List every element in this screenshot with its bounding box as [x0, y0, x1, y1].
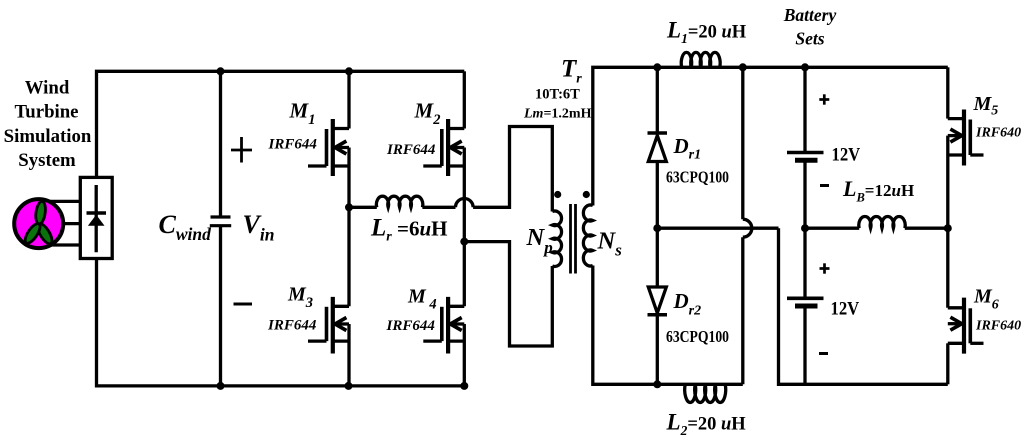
node top rail / L-vertical [739, 63, 747, 71]
transistor M6 [948, 228, 984, 384]
diode D-rect inside box [87, 185, 107, 252]
svg-text:Np: Np [526, 224, 553, 257]
minus sign B2 [819, 352, 828, 355]
wire bottom-left rail [97, 259, 465, 386]
node top rail / M1 [345, 67, 353, 75]
svg-text:System: System [18, 150, 76, 171]
capacitor Cwind [210, 217, 231, 226]
node bottom rail / M4 [460, 382, 468, 390]
svg-text:Vin: Vin [243, 210, 275, 245]
svg-text:Lr =6uH: Lr =6uH [370, 215, 447, 245]
svg-text:12V: 12V [831, 299, 860, 320]
node top rail / battery [801, 63, 809, 71]
svg-text:Ns: Ns [597, 228, 623, 260]
transistor M1 [308, 71, 349, 207]
svg-text:IRF640: IRF640 [975, 126, 1021, 141]
svg-text:Dr2: Dr2 [673, 289, 702, 319]
node middle wire / battery [801, 224, 809, 232]
svg-text:M6: M6 [973, 286, 999, 313]
svg-text:Battery: Battery [783, 5, 837, 25]
plus sign Vin [231, 137, 252, 163]
svg-text:M2: M2 [414, 99, 441, 128]
transistor M4 [423, 242, 464, 386]
wire Cwind branch bottom [219, 226, 222, 386]
transformer secondary winding Ns [583, 205, 592, 266]
wire middle output [657, 228, 948, 384]
svg-text:Wind: Wind [25, 78, 70, 99]
svg-text:L1=20 uH: L1=20 uH [666, 18, 747, 47]
svg-text:Tr: Tr [561, 55, 582, 86]
wire secondary top [593, 67, 948, 205]
wire primary bottom link [464, 242, 552, 346]
svg-text:Turbine: Turbine [14, 102, 78, 123]
svg-text:IRF644: IRF644 [386, 318, 436, 334]
node M2-M4 midpoint [460, 238, 468, 246]
plus sign B1 [819, 94, 829, 104]
wind turbine label [4, 78, 92, 172]
svg-text:L2=20 uH: L2=20 uH [666, 410, 747, 439]
node middle wire / M5M6 [944, 224, 952, 232]
wire Lr hop over M2M4 branch [456, 199, 474, 208]
svg-text:63CPQ100: 63CPQ100 [666, 327, 729, 346]
inductor L1 [681, 52, 720, 67]
inductor LB [805, 217, 948, 229]
node bottom rail / M3 [345, 382, 353, 390]
node M1-M3 midpoint [345, 203, 353, 211]
svg-text:M1: M1 [289, 99, 316, 128]
svg-text:Cwind: Cwind [159, 210, 212, 244]
wind turbine G1 [14, 199, 63, 248]
wire L-vertical with hop [743, 67, 752, 384]
svg-text:M5: M5 [973, 93, 999, 119]
transistor M3 [308, 207, 349, 386]
node bottom rail / Dr2 [653, 380, 661, 388]
svg-text:LB=12uH: LB=12uH [842, 176, 914, 205]
node top rail / Dr1 [653, 63, 661, 71]
svg-text:IRF644: IRF644 [267, 318, 317, 334]
svg-text:Sets: Sets [795, 29, 824, 49]
inductor Lr [349, 196, 456, 207]
wire top-left rail [97, 71, 465, 177]
svg-text:Dr1: Dr1 [673, 134, 702, 163]
minus sign B1 [820, 184, 829, 187]
wire turbine leads [50, 201, 80, 245]
polarity dot secondary [583, 191, 590, 198]
diode Dr1 [648, 67, 668, 228]
inductor L2 [685, 384, 726, 402]
transistor M2 [423, 71, 464, 241]
wire primary top link [473, 127, 552, 212]
svg-text:12V: 12V [832, 145, 861, 166]
node top rail / Cwind [217, 67, 225, 75]
battery B1 [787, 67, 824, 228]
wire secondary bottom [593, 266, 743, 385]
node middle wire / diodes [653, 224, 661, 232]
svg-text:Simulation: Simulation [4, 126, 92, 147]
polarity dot primary [554, 191, 561, 198]
transformer core [571, 204, 576, 274]
plus sign B2 [820, 263, 830, 273]
transformer primary winding Np [552, 211, 561, 266]
svg-text:IRF644: IRF644 [268, 136, 318, 152]
svg-text:Lm=1.2mH: Lm=1.2mH [523, 107, 592, 122]
svg-text:10T:6T: 10T:6T [535, 87, 580, 103]
svg-text:M3: M3 [287, 284, 313, 311]
rectifier box [80, 177, 112, 258]
svg-text:IRF640: IRF640 [975, 319, 1021, 334]
svg-text:63CPQ100: 63CPQ100 [666, 168, 729, 187]
svg-text:M 4: M 4 [407, 285, 437, 312]
label Battery Sets [783, 5, 837, 49]
wire Cwind branch top [219, 71, 222, 217]
battery B2 [787, 228, 824, 384]
minus sign Vin [234, 303, 253, 306]
transistor M5 [948, 67, 984, 228]
svg-text:IRF644: IRF644 [386, 142, 436, 158]
node bottom rail / Cwind [217, 382, 225, 390]
diode Dr2 [648, 228, 668, 384]
